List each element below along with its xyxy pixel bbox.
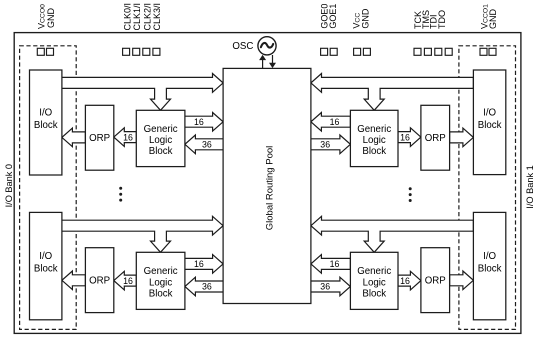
svg-text:OSC: OSC	[232, 41, 253, 52]
svg-text:CLK3/I: CLK3/I	[152, 3, 162, 31]
svg-text:Generic: Generic	[144, 266, 178, 277]
svg-text:Block: Block	[149, 288, 173, 299]
svg-text:36: 36	[202, 282, 212, 292]
svg-text:GND: GND	[46, 8, 56, 29]
svg-text:Block: Block	[362, 288, 386, 299]
svg-text:Generic: Generic	[357, 266, 391, 277]
svg-text:TDO: TDO	[437, 10, 447, 29]
svg-text:16: 16	[194, 117, 204, 127]
svg-text:GND: GND	[488, 9, 498, 30]
svg-text:I/O Bank 1: I/O Bank 1	[525, 165, 535, 208]
svg-text:Block: Block	[478, 120, 502, 131]
svg-text:I/O: I/O	[39, 107, 52, 118]
svg-text:16: 16	[194, 259, 204, 269]
svg-text:16: 16	[330, 259, 340, 269]
svg-text:16: 16	[400, 276, 410, 286]
svg-text:16: 16	[400, 132, 410, 142]
svg-text:I/O: I/O	[483, 107, 496, 118]
svg-text:Block: Block	[34, 120, 58, 131]
svg-text:Generic: Generic	[357, 124, 391, 135]
svg-text:I/O Bank 0: I/O Bank 0	[4, 164, 14, 207]
svg-text:Logic: Logic	[363, 135, 386, 146]
svg-text:I/O: I/O	[39, 251, 52, 262]
svg-text:Block: Block	[149, 146, 173, 157]
svg-text:Logic: Logic	[149, 135, 172, 146]
svg-text:36: 36	[202, 140, 212, 150]
svg-text:CLK0/I: CLK0/I	[122, 3, 132, 31]
svg-text:Logic: Logic	[149, 277, 172, 288]
svg-text:Block: Block	[34, 264, 58, 275]
svg-text:ORP: ORP	[425, 133, 446, 144]
svg-text:16: 16	[330, 117, 340, 127]
svg-text:GND: GND	[360, 8, 370, 29]
svg-text:Block: Block	[478, 264, 502, 275]
svg-text:I/O: I/O	[483, 251, 496, 262]
svg-text:ORP: ORP	[89, 276, 110, 287]
svg-text:Global Routing Pool: Global Routing Pool	[265, 146, 276, 231]
svg-text:Block: Block	[362, 146, 386, 157]
svg-text:36: 36	[320, 140, 330, 150]
svg-text:16: 16	[123, 132, 133, 142]
svg-text:16: 16	[123, 276, 133, 286]
svg-text:GOE1: GOE1	[328, 4, 338, 29]
svg-text:Generic: Generic	[144, 124, 178, 135]
svg-text:ORP: ORP	[425, 276, 446, 287]
svg-text:Logic: Logic	[363, 277, 386, 288]
svg-text:36: 36	[320, 282, 330, 292]
svg-text:CLK2/I: CLK2/I	[142, 3, 152, 31]
svg-text:CLK1/I: CLK1/I	[132, 3, 142, 31]
svg-text:ORP: ORP	[89, 133, 110, 144]
